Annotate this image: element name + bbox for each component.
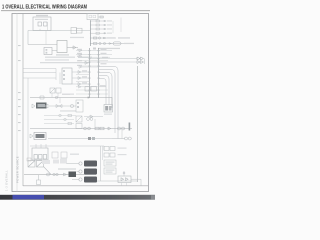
right collector tie bbox=[112, 21, 114, 33]
bus tick pins bbox=[89, 50, 100, 95]
fuse name smudges bbox=[107, 20, 112, 34]
svg-text:1 OVERALL ELECTRICAL WIRING DI: 1 OVERALL ELECTRICAL WIRING DIAGRAM bbox=[2, 5, 87, 11]
diode box D1 bbox=[118, 176, 131, 183]
twin connector boxes on row 89 bbox=[85, 87, 97, 92]
dark module 1 bbox=[84, 161, 97, 167]
ignition switch label bbox=[56, 54, 69, 55]
bus rung y=94 bbox=[76, 93, 108, 95]
center bus left x=88.5 bbox=[89, 48, 91, 98]
harness bend bundle (center-right) bbox=[99, 67, 119, 139]
paired row caption 1 bbox=[118, 148, 127, 149]
noise filter (dark component) NF1 bbox=[32, 103, 48, 109]
wire code dashes bbox=[77, 49, 108, 86]
relay pair drops bbox=[52, 93, 58, 98]
main bus from battery bbox=[90, 20, 92, 46]
ring terminal bbox=[47, 173, 50, 176]
bowtie connectors bbox=[56, 105, 62, 108]
more rungs bbox=[76, 75, 90, 82]
tick on feed line bbox=[88, 97, 90, 99]
inner vertical rule bbox=[22, 14, 24, 187]
fuse F2 row bbox=[91, 24, 107, 26]
wire from NF1 bbox=[49, 105, 76, 107]
heater component (dark, left) H1 bbox=[30, 133, 46, 140]
ignition main box (left edge pins) bbox=[76, 100, 83, 112]
drop x=56 bbox=[55, 69, 57, 81]
junction relay box JB2 (left lower) bbox=[32, 148, 48, 160]
dark code dash bbox=[129, 123, 131, 131]
ignition switch SW1 bbox=[57, 41, 67, 53]
lead circle 3 bbox=[79, 178, 82, 181]
bottom feed wire y=181 bbox=[97, 180, 138, 182]
drop between rows x=122 bbox=[121, 130, 123, 139]
inline fuse boxes on feed bbox=[71, 28, 82, 34]
row index ticks bbox=[18, 45, 21, 131]
fuse F3 row bbox=[91, 28, 107, 30]
ECU block (right, small dark) bbox=[104, 105, 113, 113]
relay block caption bbox=[36, 15, 48, 16]
relay square with diagonal (lower-left of center) bbox=[76, 116, 82, 129]
junction block JB1 (tall, center-left) bbox=[62, 68, 72, 84]
fuse F1 row bbox=[91, 20, 107, 22]
right component boxes with captions bbox=[104, 160, 116, 174]
risers from JB2 bbox=[36, 144, 46, 148]
right trunk drop bbox=[144, 59, 146, 65]
JB1 pins bbox=[63, 70, 65, 80]
left vertical riser to paired pins bbox=[100, 146, 102, 181]
long right vertical wire bbox=[137, 66, 139, 182]
node dots on bus bbox=[90, 20, 91, 44]
arrow on 113.5 bbox=[90, 115, 93, 118]
drop x=60 bbox=[59, 73, 61, 85]
riser x=28 battery feed bbox=[27, 78, 29, 161]
wire row y=146 bbox=[30, 146, 104, 150]
svg-text:1-3 OVERALL: 1-3 OVERALL bbox=[5, 170, 9, 191]
diamond connector on feed bbox=[40, 96, 44, 99]
wire row AM1 y=38 bbox=[91, 37, 117, 39]
wire from starter relay bbox=[52, 50, 57, 52]
wire from diode box to frame bbox=[131, 179, 141, 186]
bottom bar blue segment bbox=[13, 195, 45, 199]
wire: drop at x=28 bbox=[27, 31, 29, 45]
small symbols on rows bbox=[59, 114, 72, 124]
starter relay box bbox=[44, 48, 52, 55]
ECU caption bbox=[104, 114, 112, 115]
twin bead connector bbox=[53, 173, 58, 175]
long feed line y=97.5 bbox=[30, 98, 112, 109]
diode box stubs bbox=[121, 183, 123, 186]
relay pair label bbox=[62, 94, 70, 95]
bus rung y=62 bbox=[90, 61, 138, 63]
inner bottom rule bbox=[23, 185, 149, 187]
junction ring on feed line bbox=[55, 96, 57, 98]
wire branch y=78 bbox=[23, 77, 56, 79]
bus rung y=54 bbox=[76, 54, 112, 56]
long row y=128 with connectors bbox=[30, 127, 132, 130]
harness lower bbox=[23, 72, 56, 74]
feed wires to modules bbox=[66, 164, 79, 180]
battery B1 (twin cells with diagonals) bbox=[28, 161, 44, 168]
small aux box right of JB2 bbox=[52, 152, 67, 158]
wire row y=113.5 bbox=[84, 116, 103, 118]
fusible link box FL MAIN bbox=[87, 14, 98, 20]
extra light rungs bbox=[76, 57, 110, 87]
starter label bbox=[58, 168, 76, 169]
wire rows into center bus y=72..86 bbox=[72, 72, 90, 84]
AM1 labels bbox=[107, 37, 130, 38]
connector pair row y=139 bbox=[112, 137, 131, 140]
lead circle 2 bbox=[79, 170, 82, 173]
row caption y=47 bbox=[93, 48, 96, 50]
inner margin line (system column) bbox=[16, 14, 18, 192]
FL MAIN inner mark bbox=[89, 15, 92, 18]
bus rung y=66 bbox=[80, 65, 100, 67]
small label above feed bbox=[62, 94, 74, 95]
fuse row 0 (from FL box) bbox=[98, 16, 104, 18]
paired row caption 2 bbox=[118, 154, 127, 155]
noise filter caption bbox=[60, 110, 76, 111]
arrowheads on upper rungs bbox=[79, 49, 82, 56]
starter motor (dark cluster) M1 bbox=[69, 172, 77, 178]
alternator row: lead circle 1 bbox=[79, 162, 82, 165]
connector arrow on trunk bbox=[85, 61, 88, 64]
center bus right x=97.5 bbox=[98, 48, 100, 98]
drop from twin circles bbox=[94, 119, 96, 127]
ring connector bbox=[70, 104, 73, 107]
wire row with connectors y=43.5 bbox=[91, 42, 135, 45]
glow plug main wire y=174.5 bbox=[24, 174, 96, 176]
wire: branch y=44.5 into ignition switch bbox=[28, 44, 57, 46]
extra rung arrows bbox=[79, 66, 82, 88]
text smudge rows (To ... captions) bbox=[45, 57, 92, 61]
bottom bar right notch bbox=[151, 195, 155, 199]
small fuse on bottom line bbox=[37, 175, 41, 185]
bus rung y=50 bbox=[76, 50, 112, 52]
second riser bbox=[102, 146, 104, 160]
left small box above battery bbox=[27, 158, 31, 161]
riser from diode box bbox=[123, 171, 125, 176]
bus rung y=58 bbox=[90, 58, 138, 60]
wire: riser x=46 bbox=[45, 31, 47, 45]
captions in right boxes bbox=[106, 162, 115, 173]
double-arrow connector pair (right trunk) bbox=[137, 57, 144, 64]
paired pin components right-center y=150..162 bbox=[104, 147, 115, 158]
twin circle connector bbox=[87, 118, 93, 121]
bus rung y=90 bbox=[76, 89, 108, 91]
wire: relay block tail bbox=[39, 29, 41, 31]
arrow connector bbox=[64, 173, 67, 176]
svg-text:POWER SOURCE: POWER SOURCE bbox=[16, 156, 20, 183]
wire rows left-center y=115..123 bbox=[44, 116, 76, 124]
wire: from switch right bbox=[67, 47, 78, 49]
relay block R/B no.1 (top-left) bbox=[33, 17, 51, 31]
wire row y=138.5 bbox=[48, 137, 112, 140]
wire: main feed y=30 bbox=[28, 30, 90, 32]
vertical tie line x=121 bbox=[120, 18, 122, 33]
riser junction ring bbox=[123, 172, 125, 174]
drop from feed line bbox=[59, 98, 61, 104]
connector arrow A1 bbox=[73, 46, 76, 49]
schematic frame border bbox=[12, 14, 149, 192]
starter relay pins bbox=[46, 49, 48, 54]
row 43.5 label bbox=[124, 43, 134, 44]
dark module 3 bbox=[84, 177, 97, 183]
feed label bbox=[70, 37, 84, 38]
faint component cluster above battery row bbox=[42, 159, 67, 165]
harness pair into main box y=68/72 bbox=[23, 68, 56, 70]
caption smudge bbox=[70, 154, 79, 155]
title underline rule bbox=[1, 10, 150, 12]
dark module 2 bbox=[84, 169, 97, 175]
wire trunk y=63 bbox=[40, 62, 90, 64]
relay with diagonal (left) bbox=[50, 88, 61, 93]
fuse F4 row bbox=[91, 32, 107, 34]
arrows on rows bbox=[78, 71, 81, 86]
battery cable diagonal bbox=[44, 167, 52, 175]
